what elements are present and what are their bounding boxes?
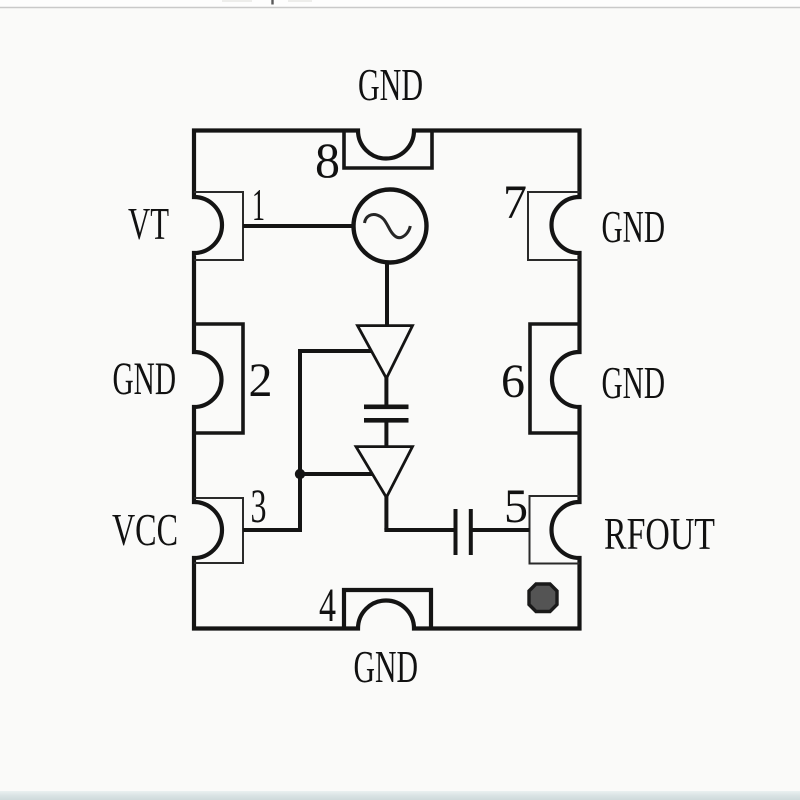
svg-text:7: 7 [503, 176, 527, 229]
svg-text:VT: VT [128, 198, 169, 249]
svg-text:VCC: VCC [112, 504, 178, 555]
svg-text:8: 8 [315, 132, 340, 188]
svg-text:GND: GND [113, 353, 177, 405]
svg-text:6: 6 [501, 355, 525, 408]
svg-text:RFOUT: RFOUT [604, 508, 715, 559]
svg-text:GND: GND [358, 59, 423, 110]
svg-text:GND: GND [602, 202, 666, 252]
svg-text:5: 5 [504, 480, 528, 533]
svg-text:1: 1 [252, 179, 265, 230]
svg-text:GND: GND [602, 357, 666, 408]
svg-text:4: 4 [319, 579, 336, 632]
svg-text:GND: GND [354, 641, 419, 692]
svg-text:3: 3 [251, 480, 267, 533]
svg-text:2: 2 [249, 354, 273, 407]
